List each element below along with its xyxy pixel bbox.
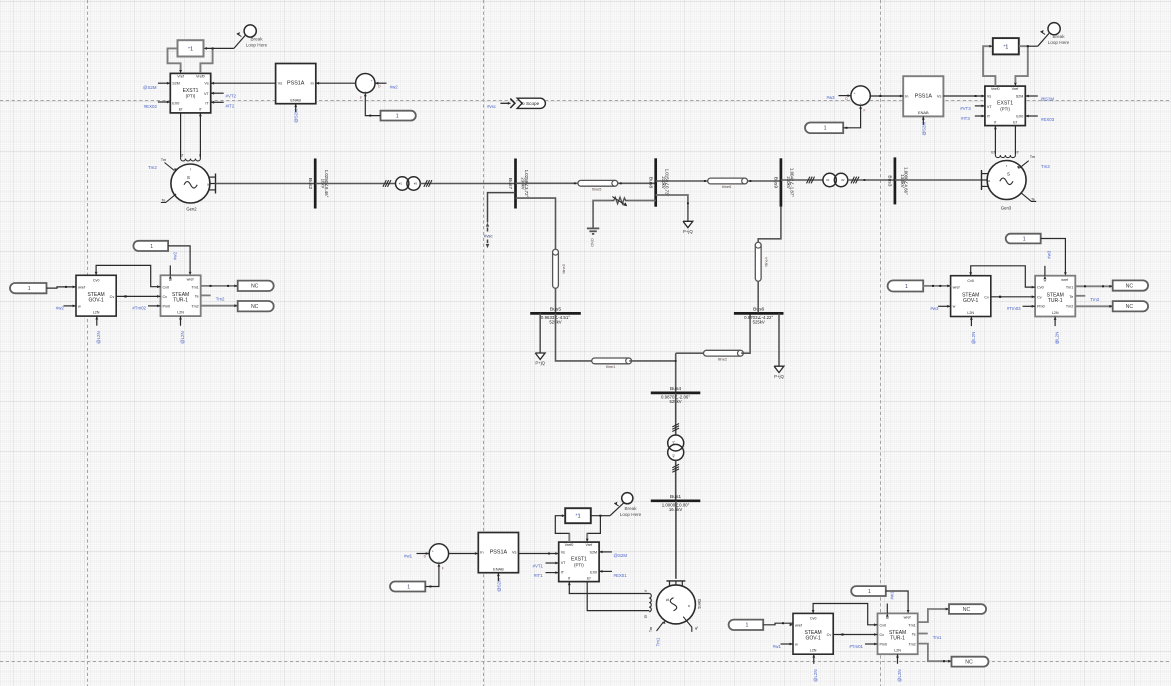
svg-text:S2M: S2M (590, 550, 598, 554)
svg-text:GND: GND (590, 238, 594, 247)
svg-text:Cv0: Cv0 (967, 279, 974, 283)
svg-text:(PTI): (PTI) (1000, 106, 1010, 111)
svg-text:Cv: Cv (1037, 295, 1042, 299)
svg-text:@L2N: @L2N (971, 332, 976, 345)
svg-text:Cv0: Cv0 (93, 279, 100, 283)
svg-text:#VT3: #VT3 (960, 106, 971, 111)
svg-text:@L2N: @L2N (96, 331, 101, 344)
svg-text:NC: NC (963, 607, 971, 613)
svg-text:Gen3: Gen3 (1001, 206, 1012, 211)
svg-text:Tm2: Tm2 (216, 297, 225, 302)
svg-text:ENAB: ENAB (493, 566, 504, 571)
svg-text:Tm2: Tm2 (1066, 305, 1073, 309)
svg-text:#IT2: #IT2 (226, 104, 235, 109)
svg-text:Tm1: Tm1 (933, 635, 942, 640)
svg-text:TUR-1: TUR-1 (1048, 298, 1063, 304)
svg-text:wref: wref (904, 616, 912, 620)
svg-text:PSS1A: PSS1A (490, 550, 508, 556)
svg-text:Cv: Cv (880, 633, 885, 637)
svg-text:Gen1: Gen1 (697, 599, 702, 610)
svg-text:Te: Te (912, 633, 916, 637)
svg-text:GOV-1: GOV-1 (88, 297, 104, 303)
svg-text:#EX01: #EX01 (614, 573, 628, 578)
svg-text:#2: #2 (841, 178, 845, 182)
svg-text:Cv: Cv (163, 295, 168, 299)
svg-text:TUR-1: TUR-1 (173, 297, 188, 303)
svg-text:Vs: Vs (987, 94, 991, 98)
svg-text:#w2: #w2 (56, 306, 65, 311)
svg-text:S2M: S2M (172, 82, 180, 86)
svg-text:Tm2: Tm2 (191, 304, 198, 308)
svg-text:w: w (953, 305, 956, 309)
svg-text:#1: #1 (399, 182, 403, 186)
svg-text:w: w (795, 642, 798, 646)
svg-text:Bus9: Bus9 (773, 177, 779, 188)
svg-text:#w2: #w2 (172, 251, 177, 260)
svg-text:#Tm03: #Tm03 (1007, 306, 1021, 311)
svg-text:tline6: tline6 (722, 184, 731, 189)
svg-text:Tm: Tm (1030, 155, 1035, 159)
svg-text:#EX02: #EX02 (144, 104, 158, 109)
svg-text:ENAB: ENAB (918, 110, 929, 115)
svg-text:Vs: Vs (278, 81, 283, 86)
svg-text:Te: Te (694, 626, 698, 630)
svg-text:#IT3: #IT3 (961, 116, 970, 121)
svg-text:F: F (442, 566, 444, 570)
svg-text:F: F (863, 109, 865, 113)
svg-text:Tm: Tm (161, 158, 166, 162)
svg-text:Tm3: Tm3 (1041, 164, 1050, 169)
svg-text:#2: #2 (672, 454, 676, 458)
svg-text:#w1: #w1 (889, 591, 894, 600)
svg-text:EX0: EX0 (172, 102, 179, 106)
svg-text:Tm3: Tm3 (1090, 297, 1099, 302)
svg-text:Cv: Cv (827, 633, 832, 637)
svg-text:Ef: Ef (991, 150, 994, 154)
svg-text:EX0: EX0 (590, 570, 597, 574)
svg-text:tline3: tline3 (561, 264, 566, 273)
svg-text:Vref0: Vref0 (196, 74, 205, 78)
svg-text:P+jQ: P+jQ (683, 229, 693, 234)
svg-text:#Tm01: #Tm01 (849, 644, 863, 649)
svg-text:NC: NC (1126, 304, 1134, 310)
svg-text:+: + (432, 550, 434, 554)
svg-text:(PTI): (PTI) (186, 94, 196, 99)
svg-text:L2N: L2N (93, 311, 100, 315)
svg-text:Vref: Vref (585, 543, 593, 547)
svg-text:L2N: L2N (177, 311, 184, 315)
svg-text:Vs: Vs (512, 550, 517, 555)
svg-text:Tm: Tm (649, 627, 653, 632)
svg-text:230kV: 230kV (661, 176, 666, 188)
svg-text:wref: wref (78, 285, 86, 289)
svg-text:Break: Break (1052, 34, 1065, 39)
svg-text:S2M: S2M (1016, 94, 1024, 98)
svg-text:#w1: #w1 (773, 644, 782, 649)
svg-text:1: 1 (868, 589, 871, 595)
svg-text:VT: VT (987, 105, 992, 109)
svg-text:a: a (687, 605, 691, 607)
svg-text:D: D (424, 555, 427, 559)
svg-text:Pm0: Pm0 (163, 304, 171, 308)
svg-text:D: D (378, 84, 381, 88)
svg-text:Te: Te (1031, 197, 1035, 201)
svg-text:*1: *1 (576, 514, 581, 520)
svg-text:Break: Break (624, 506, 637, 511)
svg-text:In: In (480, 550, 483, 555)
svg-text:wref: wref (795, 623, 803, 627)
svg-text:1: 1 (28, 286, 31, 292)
svg-text:wref: wref (187, 278, 195, 282)
svg-text:Bus7: Bus7 (507, 178, 513, 189)
svg-text:S: S (1007, 172, 1010, 177)
svg-text:In: In (905, 93, 908, 98)
svg-text:1: 1 (905, 284, 908, 290)
svg-text:#w3: #w3 (827, 95, 836, 100)
svg-text:If: If (1017, 150, 1019, 154)
svg-text:wref: wref (953, 286, 961, 290)
svg-text:Cv: Cv (984, 295, 989, 299)
svg-text:NC: NC (965, 660, 973, 666)
svg-text:tline1: tline1 (606, 364, 615, 369)
svg-text:1: 1 (407, 584, 410, 590)
svg-text:#1: #1 (826, 178, 830, 182)
svg-text:Vref0: Vref0 (565, 543, 574, 547)
svg-text:#EX03: #EX03 (1041, 117, 1055, 122)
svg-text:Cv0: Cv0 (1037, 286, 1044, 290)
svg-text:#w1: #w1 (404, 554, 413, 559)
svg-text:#vsc: #vsc (484, 234, 493, 239)
svg-text:525kV: 525kV (753, 320, 765, 325)
svg-text:Cv0: Cv0 (163, 285, 170, 289)
svg-text:Ef: Ef (644, 615, 648, 618)
svg-text:VT: VT (561, 561, 566, 565)
svg-text:230kV: 230kV (786, 176, 791, 188)
svg-text:#IT1: #IT1 (534, 573, 543, 578)
svg-text:Tm1: Tm1 (1066, 286, 1073, 290)
svg-text:L2N: L2N (1052, 311, 1059, 315)
svg-text:#Tm02: #Tm02 (132, 306, 146, 311)
svg-text:*1: *1 (1003, 44, 1008, 50)
svg-text:NC: NC (1126, 283, 1134, 289)
svg-text:1: 1 (150, 244, 153, 250)
svg-text:If: If (644, 590, 648, 592)
svg-text:Gen2: Gen2 (186, 206, 197, 211)
svg-text:+: + (370, 79, 372, 83)
svg-text:Bus4: Bus4 (670, 386, 681, 392)
svg-text:Loop Here: Loop Here (1048, 40, 1070, 45)
svg-text:*1: *1 (188, 46, 193, 52)
svg-text:Loop Here: Loop Here (246, 42, 268, 47)
svg-text:L2N: L2N (894, 649, 901, 653)
svg-text:S: S (187, 175, 190, 180)
svg-text:1: 1 (745, 623, 748, 629)
svg-text:PSS1A: PSS1A (915, 93, 933, 99)
svg-text:Vref: Vref (1012, 87, 1020, 91)
svg-text:Tm1: Tm1 (656, 637, 661, 646)
svg-text:13.8kV: 13.8kV (900, 174, 905, 188)
svg-text:S: S (665, 598, 670, 601)
svg-text:Pm0: Pm0 (1037, 305, 1045, 309)
svg-text:1: 1 (1023, 236, 1026, 242)
svg-text:#w2: #w2 (390, 85, 399, 90)
svg-text:#vsc: #vsc (487, 104, 497, 109)
svg-text:@L2N: @L2N (813, 669, 818, 682)
svg-text:a: a (988, 179, 990, 183)
svg-text:Cv: Cv (110, 295, 115, 299)
svg-text:Te: Te (195, 295, 199, 299)
svg-text:@L2N: @L2N (180, 331, 185, 344)
svg-text:Vs: Vs (561, 550, 565, 554)
svg-text:Cv0: Cv0 (810, 617, 817, 621)
svg-text:1: 1 (824, 126, 827, 132)
svg-text:tline4: tline4 (764, 256, 769, 266)
svg-text:NC: NC (251, 284, 259, 290)
svg-text:GOV-1: GOV-1 (805, 636, 821, 642)
svg-text:Tm2: Tm2 (908, 642, 915, 646)
svg-text:tline5: tline5 (592, 187, 601, 192)
svg-text:Bus2: Bus2 (307, 178, 313, 189)
svg-text:EX0: EX0 (1016, 114, 1023, 118)
svg-text:NC: NC (251, 304, 259, 310)
svg-text:Bus5: Bus5 (550, 306, 561, 312)
svg-text:Vref0: Vref0 (991, 87, 1000, 91)
svg-text:wref: wref (1061, 278, 1069, 282)
svg-text:#w3: #w3 (930, 306, 939, 311)
svg-text:Vref: Vref (177, 74, 185, 78)
svg-text:@L2N: @L2N (1055, 332, 1060, 345)
svg-text:#2: #2 (414, 182, 418, 186)
svg-text:Vs: Vs (937, 93, 942, 98)
svg-text:Te: Te (162, 199, 166, 203)
svg-text:VT: VT (204, 92, 209, 96)
svg-text:Tm1: Tm1 (191, 285, 198, 289)
svg-text:Pm0: Pm0 (880, 642, 888, 646)
svg-text:Break: Break (250, 36, 263, 41)
svg-text:Tm1: Tm1 (908, 623, 915, 627)
svg-text:+: + (853, 92, 855, 96)
svg-text:Bus8: Bus8 (647, 177, 653, 188)
svg-text:(PTI): (PTI) (574, 562, 584, 567)
svg-text:#1: #1 (672, 440, 676, 444)
svg-text:P+jQ: P+jQ (774, 374, 784, 379)
svg-text:To Scope: To Scope (520, 101, 540, 106)
svg-text:F: F (360, 96, 362, 100)
svg-text:tline2: tline2 (718, 356, 727, 361)
svg-text:Tm2: Tm2 (148, 165, 157, 170)
svg-text:PSS1A: PSS1A (287, 81, 305, 87)
svg-text:L2N: L2N (810, 649, 817, 653)
svg-text:Bus3: Bus3 (887, 175, 893, 186)
svg-text:w: w (78, 304, 81, 308)
svg-text:Loop Here: Loop Here (620, 512, 642, 517)
svg-text:Cv0: Cv0 (880, 623, 887, 627)
svg-text:In: In (311, 81, 314, 86)
svg-text:ENAB: ENAB (290, 97, 301, 102)
svg-text:Vs: Vs (204, 82, 208, 86)
svg-text:P+jQ: P+jQ (535, 361, 545, 366)
svg-text:GOV-1: GOV-1 (963, 298, 979, 304)
svg-text:Te: Te (1069, 295, 1073, 299)
svg-text:#VT2: #VT2 (226, 93, 237, 98)
svg-text:@L2N: @L2N (897, 669, 902, 682)
svg-text:Bus1: Bus1 (670, 494, 681, 500)
svg-text:@S2M: @S2M (143, 85, 157, 90)
svg-text:#VT1: #VT1 (533, 564, 544, 569)
svg-text:TUR-1: TUR-1 (890, 636, 905, 642)
svg-text:a: a (207, 182, 209, 186)
svg-text:L2N: L2N (967, 311, 974, 315)
svg-text:@S2M: @S2M (1041, 97, 1055, 102)
svg-text:1: 1 (396, 114, 399, 120)
svg-text:@S2M: @S2M (614, 553, 628, 558)
svg-text:#w3: #w3 (1046, 250, 1051, 259)
